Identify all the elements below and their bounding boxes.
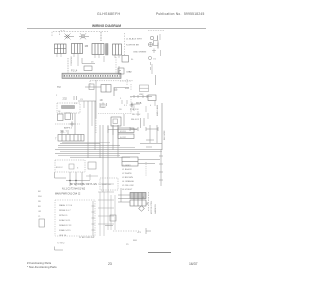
- small box L1: [58, 114, 64, 121]
- wire below motor: [141, 118, 145, 128]
- crossing horizontal: [66, 180, 90, 182]
- svg-text:5B1: 5B1: [133, 240, 138, 242]
- legend mark row1: [157, 36, 159, 41]
- svg-text:L0 GREY: L0 GREY: [122, 165, 131, 167]
- inner mark of P1: [113, 119, 118, 124]
- svg-text:P9: P9: [126, 244, 129, 246]
- svg-text:2: 2: [56, 95, 58, 97]
- svg-text:C3: C3: [80, 99, 84, 101]
- junction ticks: [70, 180, 76, 182]
- vertical x92: [91, 101, 93, 126]
- svg-text:O1: O1: [153, 59, 157, 61]
- wires from relay block: [138, 160, 160, 164]
- svg-text:SWITCH: SWITCH: [102, 184, 111, 186]
- footer non-functioning parts note: [27, 265, 57, 269]
- svg-text:+P1: +P1: [137, 232, 142, 234]
- svg-text:RD 2 BU: RD 2 BU: [132, 114, 141, 116]
- svg-text:7: 7: [55, 138, 57, 141]
- svg-text:5: 5: [120, 98, 122, 100]
- dense label row 1: [55, 184, 97, 196]
- svg-text:P4 T8 C2: P4 T8 C2: [131, 104, 141, 106]
- wire verticals under dashed box: [70, 172, 82, 186]
- svg-text:L6 VIOLET: L6 VIOLET: [122, 189, 133, 191]
- component box K1 (left connector block): [55, 44, 67, 54]
- component box K4 (small connector): [113, 44, 122, 55]
- svg-text:3 5B 1 M: 3 5B 1 M: [130, 109, 139, 111]
- legend plus row3: [152, 50, 156, 52]
- bottom right cluster boxes: [130, 193, 146, 207]
- svg-text:BK: BK: [38, 191, 41, 193]
- svg-text:YL: YL: [38, 216, 41, 218]
- verticals bottom mid: [111, 195, 115, 230]
- vertical line right mid: [151, 64, 153, 74]
- svg-text:1D: 1D: [100, 99, 103, 102]
- L-bracket wire: [82, 58, 95, 64]
- wire run 5: [70, 156, 130, 158]
- timer chart rows: [59, 204, 73, 237]
- svg-text:BK WH RD BU OR YL GN: BK WH RD BU OR YL GN: [70, 184, 97, 186]
- small box L2: [65, 113, 71, 120]
- vertical wire drops group: [62, 101, 118, 192]
- svg-text:CN2: CN2: [139, 94, 144, 96]
- tick right of bracket: [103, 56, 105, 62]
- svg-text:K4 R2: K4 R2: [120, 137, 127, 139]
- svg-text:1B: 1B: [85, 44, 89, 48]
- legend mark row2: [157, 43, 159, 49]
- middle speckle texts: [56, 95, 152, 113]
- right vertical line: [155, 75, 157, 85]
- svg-text:BU: BU: [38, 206, 41, 208]
- inner dashed corner: [60, 31, 66, 35]
- header model number: [97, 12, 120, 16]
- vertical dashes near plus mark: [130, 97, 132, 112]
- component box B2 top right: [122, 56, 129, 63]
- dotted vertical right of relay: [145, 162, 147, 176]
- rotated text beside bus: [156, 104, 166, 140]
- ladder stubs right of timer: [98, 184, 114, 224]
- right vertical bus: [161, 103, 163, 150]
- svg-text:232: 232: [63, 97, 68, 101]
- cross in legend circle 2: [149, 43, 153, 47]
- svg-text:MOTOR CTRL: MOTOR CTRL: [151, 200, 153, 214]
- svg-text:DRAIN 12 13: DRAIN 12 13: [59, 224, 72, 227]
- vertical dashes above band end: [115, 57, 117, 73]
- dashed box lower left: [55, 160, 85, 172]
- svg-text:L1 BLACK WHT: L1 BLACK WHT: [126, 38, 142, 41]
- legend extra ticks right: [154, 34, 161, 56]
- svg-text:T2 SEQ: T2 SEQ: [57, 243, 65, 245]
- dashed box heater group: [57, 103, 80, 113]
- wire color label column: [122, 165, 135, 191]
- central relay block: [122, 157, 138, 166]
- extra ticks middle: [122, 100, 155, 106]
- footer sheet number: [189, 262, 198, 266]
- timer chart right scale: [92, 201, 95, 236]
- wire dashed continuation: [95, 118, 97, 134]
- svg-text:2B: 2B: [119, 109, 122, 111]
- svg-text:HARNESS: HARNESS: [154, 204, 157, 214]
- svg-text:5L: 5L: [131, 59, 134, 61]
- legend lamp symbol 2: [149, 43, 153, 47]
- footer page number 23: [108, 262, 112, 266]
- long wire runs: [60, 143, 100, 145]
- left margin tiny labels: [38, 191, 42, 218]
- diamond mark: [139, 206, 145, 212]
- svg-text:N L1 C3 T2 M4 S1 W2: N L1 C3 T2 M4 S1 W2: [62, 189, 86, 191]
- svg-text:WASH 1 2 3 4: WASH 1 2 3 4: [59, 204, 73, 207]
- wire run 2: [58, 145, 120, 147]
- svg-text:4H6: 4H6: [125, 88, 130, 90]
- dashed top border of console enclosure: [52, 32, 108, 37]
- header title WIRING DIAGRAM: [92, 24, 121, 28]
- svg-text:P1 L4: P1 L4: [71, 70, 78, 73]
- small box with label upper mid: [118, 68, 124, 74]
- motor cluster tick marks: [134, 106, 148, 119]
- verticals to bottom: [100, 192, 108, 236]
- bottom small label: [55, 247, 64, 251]
- svg-text:WH: WH: [38, 196, 42, 198]
- wire with ticks under N1: [130, 95, 152, 98]
- svg-text:CONSOLE: CONSOLE: [71, 56, 73, 66]
- twin box M1: [101, 85, 111, 93]
- svg-text:4: 4: [150, 105, 152, 107]
- stub wire: [105, 225, 113, 227]
- bottom wire under P1: [108, 125, 137, 135]
- dashed switch box: [100, 178, 118, 190]
- bracket terminal right: [146, 127, 158, 131]
- dotted line top right: [148, 30, 164, 32]
- stacked boxes center: [118, 128, 134, 139]
- wire run 4: [55, 153, 140, 155]
- short vertical x84: [83, 101, 85, 108]
- dashed line below band going right: [120, 79, 131, 86]
- svg-text:11 BK 5 RD 3W: 11 BK 5 RD 3W: [79, 237, 95, 239]
- switch S1 (door switch symbol): [64, 34, 74, 40]
- header publication number: [156, 12, 205, 16]
- small box on band: [84, 66, 92, 71]
- svg-text:OFF 16: OFF 16: [59, 235, 67, 237]
- svg-text:18: 18: [58, 111, 61, 113]
- marks in M2 cluster: [100, 103, 107, 109]
- wire run 3: [55, 149, 162, 151]
- svg-text:3 1: 3 1: [124, 105, 128, 107]
- svg-text:1B: 1B: [114, 88, 118, 92]
- svg-text:BLK WIRE: BLK WIRE: [164, 130, 166, 140]
- svg-text:C1: C1: [74, 103, 78, 105]
- svg-text:MAIN HARN: MAIN HARN: [156, 104, 159, 116]
- lower mid marks: [86, 174, 98, 180]
- svg-text:L4 ORANGE: L4 ORANGE: [122, 180, 135, 183]
- vertical wire to band left: [77, 57, 79, 66]
- corner bracket under dashed box: [55, 172, 67, 178]
- right bus lower with ticks: [159, 150, 163, 186]
- header rule: [27, 28, 206, 30]
- main connector band (hatched strip): [62, 71, 121, 79]
- timer chart dashed region: [55, 200, 95, 236]
- small box N1 (right): [140, 85, 149, 92]
- terminal strip: [58, 135, 84, 142]
- noise filter bar: [106, 44, 109, 56]
- svg-text:FINAL 14 15: FINAL 14 15: [59, 229, 71, 232]
- svg-text:L3 BROWN: L3 BROWN: [122, 177, 133, 179]
- extra horizontals wire zone: [58, 143, 162, 156]
- junction cross: [70, 122, 75, 127]
- svg-text:TM: TM: [57, 86, 60, 89]
- dotted divider line: [98, 108, 131, 114]
- small tick box M2: [101, 104, 105, 108]
- inner box Q2: [69, 164, 74, 169]
- svg-text:SPIN 8 9: SPIN 8 9: [59, 215, 68, 217]
- small block right legend: [154, 41, 159, 46]
- vertical text column to band: [67, 58, 69, 73]
- right pair verticals: [150, 125, 157, 143]
- small marks right: [74, 96, 77, 100]
- svg-text:OR: OR: [38, 211, 42, 213]
- small box on stub: [89, 84, 94, 90]
- svg-text:J3: J3: [91, 62, 94, 64]
- wire stub: [85, 86, 101, 88]
- svg-text:CN5: CN5: [126, 72, 131, 74]
- plus junction right: [130, 103, 135, 108]
- right corner wires: [140, 140, 162, 147]
- stubs under connector boxes: [57, 54, 119, 59]
- legend lamp symbol: [150, 36, 154, 40]
- footer functioning parts note: [27, 261, 51, 265]
- svg-text:K3 R1: K3 R1: [120, 131, 127, 133]
- lower mid cluster box: [88, 162, 96, 169]
- svg-text:MAIN PWR CN1 CN4 J2: MAIN PWR CN1 CN4 J2: [55, 193, 81, 196]
- dashed wire with junction: [55, 123, 80, 125]
- tiny ticks right margin: [150, 62, 152, 70]
- switch S2 (lid switch symbol): [79, 33, 89, 39]
- circle cluster right: [148, 56, 151, 59]
- svg-text:RINSE 5 6 7: RINSE 5 6 7: [59, 210, 71, 212]
- marks L3: [73, 113, 76, 120]
- rotated label column bottom: [151, 200, 157, 214]
- component box K2 (second connector block): [72, 44, 83, 54]
- band right-end connection: [118, 66, 120, 73]
- heater element bar: [62, 106, 75, 109]
- vertical label column A: [100, 32, 102, 41]
- vertical dashes right of K4: [124, 33, 126, 56]
- svg-text:W4 6 K1: W4 6 K1: [131, 119, 140, 121]
- svg-text:L2 WHITE: L2 WHITE: [122, 173, 132, 175]
- bracket terminal left: [130, 127, 138, 131]
- dashed wire below band: [90, 81, 133, 90]
- svg-text:L1 BLACK: L1 BLACK: [122, 168, 132, 171]
- bottom right line: [148, 252, 171, 254]
- corner bracket: [146, 228, 151, 234]
- vertical wire right of P1: [123, 114, 125, 126]
- corner wire above P1: [114, 88, 129, 97]
- left small box: [39, 219, 45, 227]
- entry wires to cluster: [118, 188, 130, 202]
- svg-text:RD: RD: [38, 201, 42, 203]
- vertical tick column right of cluster: [148, 192, 150, 212]
- wire joining verticals: [78, 100, 96, 102]
- relay box P1 with inner mark: [111, 117, 121, 126]
- small box above dashes: [110, 215, 116, 221]
- svg-text:AMPS 2: AMPS 2: [64, 127, 73, 130]
- svg-text:L5 YELLOW: L5 YELLOW: [122, 185, 134, 187]
- svg-text:B1 8 C: B1 8 C: [56, 167, 63, 169]
- center vertical wire: [95, 80, 97, 118]
- small box N2: [148, 95, 156, 101]
- svg-text:N WHITE BR: N WHITE BR: [126, 45, 139, 47]
- labels right of cluster: [143, 196, 149, 205]
- svg-text:SOAK 10 11: SOAK 10 11: [59, 219, 71, 222]
- svg-text:3B1 7: 3B1 7: [60, 130, 67, 134]
- component box K3 (third connector block): [92, 44, 104, 55]
- svg-text:GND GREEN: GND GREEN: [133, 52, 147, 54]
- motor control text cluster: [130, 104, 141, 121]
- dashed run bottom: [113, 230, 139, 232]
- svg-text:3: 3: [77, 168, 79, 170]
